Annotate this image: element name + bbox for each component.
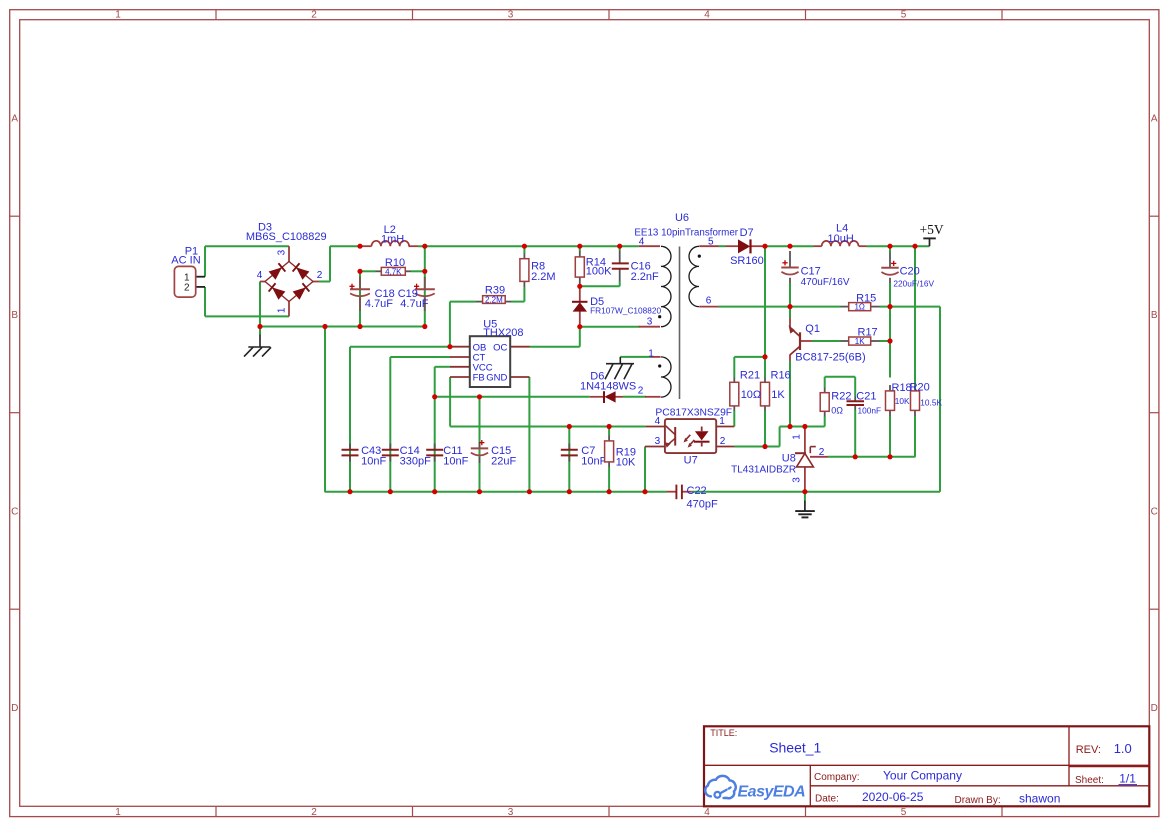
svg-text:2: 2: [311, 807, 317, 818]
svg-text:C: C: [1151, 506, 1158, 517]
svg-text:+5V: +5V: [920, 222, 944, 237]
svg-text:2: 2: [184, 283, 190, 294]
svg-text:10K: 10K: [895, 396, 910, 406]
svg-text:TL431AIDBZR: TL431AIDBZR: [731, 464, 796, 475]
svg-text:U7: U7: [684, 454, 698, 466]
svg-text:U6: U6: [675, 212, 689, 224]
svg-text:EasyEDA: EasyEDA: [738, 784, 806, 801]
svg-text:B: B: [1151, 310, 1158, 321]
svg-text:4: 4: [257, 270, 263, 281]
svg-text:1N4148WS: 1N4148WS: [580, 380, 636, 392]
svg-text:3: 3: [647, 317, 653, 328]
svg-text:D7: D7: [740, 227, 754, 239]
svg-text:Date:: Date:: [815, 794, 839, 805]
svg-text:C: C: [11, 506, 18, 517]
svg-text:10uH: 10uH: [828, 233, 854, 245]
svg-text:2: 2: [819, 447, 825, 458]
svg-text:C20: C20: [900, 266, 920, 278]
svg-text:1K: 1K: [771, 389, 785, 401]
svg-text:1: 1: [648, 348, 654, 359]
svg-text:10nF: 10nF: [361, 456, 386, 468]
svg-text:2: 2: [638, 385, 644, 396]
svg-text:R17: R17: [858, 326, 878, 338]
svg-text:22uF: 22uF: [491, 456, 516, 468]
svg-text:C21: C21: [856, 390, 876, 402]
svg-text:1: 1: [115, 10, 121, 21]
svg-text:R15: R15: [856, 293, 876, 305]
svg-text:470uF/16V: 470uF/16V: [801, 277, 850, 288]
svg-text:BC817-25(6B): BC817-25(6B): [795, 351, 865, 363]
svg-text:5: 5: [901, 807, 907, 818]
svg-text:1/1: 1/1: [1119, 772, 1136, 786]
svg-text:2: 2: [311, 10, 317, 21]
svg-text:4: 4: [704, 10, 710, 21]
svg-text:1.0: 1.0: [1114, 741, 1132, 756]
svg-text:5: 5: [708, 237, 714, 248]
svg-text:3: 3: [277, 249, 288, 255]
svg-text:1: 1: [719, 416, 725, 427]
svg-text:shawon: shawon: [1019, 792, 1060, 806]
svg-text:2020-06-25: 2020-06-25: [862, 790, 924, 804]
svg-text:1: 1: [792, 434, 803, 440]
svg-text:1mH: 1mH: [381, 233, 404, 245]
svg-text:R10: R10: [385, 257, 405, 269]
svg-text:1: 1: [115, 807, 121, 818]
svg-text:R20: R20: [910, 382, 930, 394]
svg-text:SR160: SR160: [730, 255, 764, 267]
svg-text:470pF: 470pF: [687, 498, 718, 510]
svg-text:2.2M: 2.2M: [531, 271, 555, 283]
svg-text:TITLE:: TITLE:: [710, 728, 737, 738]
svg-text:1: 1: [277, 307, 288, 313]
svg-text:Q1: Q1: [805, 323, 820, 335]
svg-text:3: 3: [508, 807, 514, 818]
svg-text:2: 2: [720, 436, 726, 447]
svg-text:R39: R39: [485, 285, 505, 297]
svg-text:C17: C17: [801, 265, 821, 277]
svg-text:4.7uF: 4.7uF: [365, 298, 393, 310]
svg-text:0Ω: 0Ω: [831, 406, 843, 416]
svg-text:10.5K: 10.5K: [920, 398, 942, 408]
svg-text:Sheet:: Sheet:: [1075, 775, 1104, 786]
svg-text:5: 5: [901, 10, 907, 21]
svg-text:100nF: 100nF: [858, 406, 882, 416]
svg-text:D: D: [11, 703, 18, 714]
svg-text:OC: OC: [493, 342, 507, 353]
svg-text:10K: 10K: [616, 457, 636, 469]
svg-text:AC IN: AC IN: [171, 254, 200, 266]
svg-text:A: A: [11, 114, 18, 125]
svg-text:B: B: [11, 310, 18, 321]
svg-text:4: 4: [655, 416, 661, 427]
svg-text:FB: FB: [473, 373, 485, 384]
svg-text:100K: 100K: [586, 266, 612, 278]
svg-text:THX208: THX208: [483, 327, 523, 339]
svg-text:2.2M: 2.2M: [485, 295, 503, 304]
svg-text:3: 3: [792, 477, 803, 483]
svg-text:330pF: 330pF: [400, 456, 431, 468]
svg-text:Your Company: Your Company: [883, 768, 962, 782]
svg-text:MB6S_C108829: MB6S_C108829: [246, 231, 327, 243]
svg-text:A: A: [1151, 114, 1158, 125]
svg-text:Company:: Company:: [814, 772, 860, 783]
svg-text:10nF: 10nF: [581, 456, 606, 468]
svg-text:EE13 10pinTransformer: EE13 10pinTransformer: [634, 227, 738, 238]
svg-text:6: 6: [706, 296, 712, 307]
svg-text:R16: R16: [771, 370, 791, 382]
svg-text:Sheet_1: Sheet_1: [769, 739, 821, 755]
svg-text:4: 4: [704, 807, 710, 818]
svg-text:Drawn By:: Drawn By:: [955, 795, 1001, 806]
svg-text:FR107W_C108820: FR107W_C108820: [590, 305, 661, 315]
svg-text:2.2nF: 2.2nF: [631, 271, 659, 283]
svg-text:C22: C22: [687, 485, 707, 497]
svg-text:4: 4: [639, 237, 645, 248]
svg-text:R21: R21: [740, 370, 760, 382]
svg-text:10Ω: 10Ω: [741, 389, 761, 401]
svg-text:GND: GND: [486, 373, 507, 384]
svg-text:10nF: 10nF: [443, 456, 468, 468]
svg-text:REV:: REV:: [1076, 744, 1101, 756]
svg-text:3: 3: [655, 436, 661, 447]
svg-text:3: 3: [508, 10, 514, 21]
svg-text:2: 2: [317, 270, 323, 281]
svg-text:D: D: [1151, 703, 1158, 714]
svg-text:4.7uF: 4.7uF: [400, 298, 428, 310]
svg-text:220uF/16V: 220uF/16V: [893, 279, 934, 289]
svg-text:U8: U8: [782, 452, 796, 464]
